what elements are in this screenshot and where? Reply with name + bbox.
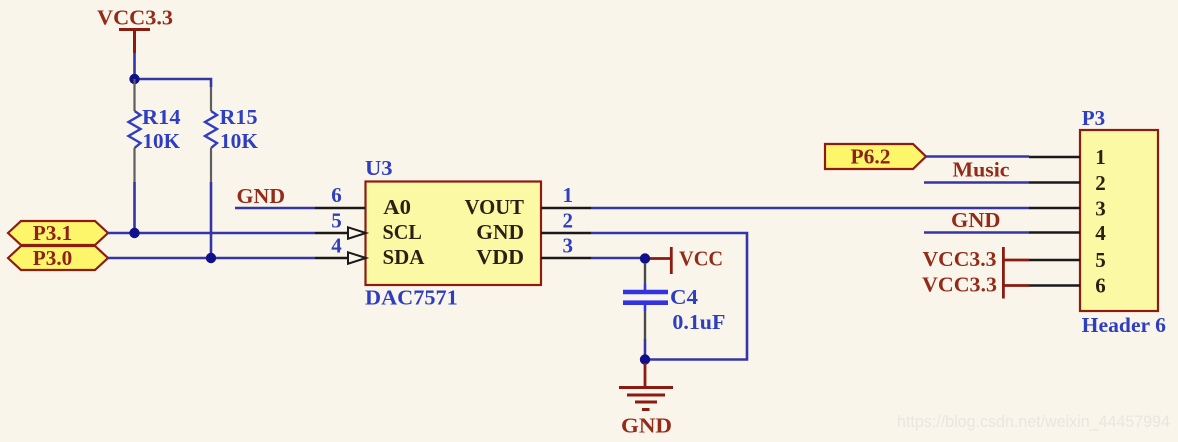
pin name SDA	[383, 245, 426, 269]
pin 6 (A0)	[315, 207, 365, 209]
svg-text:P3.0: P3.0	[33, 246, 73, 270]
connector P3 body	[1080, 130, 1158, 311]
pin 4 (SDA) with input triangle	[315, 252, 366, 263]
power port VCC3.3 (header pin 5)	[923, 247, 1030, 273]
net label GND (A0 pin)	[237, 184, 286, 208]
pin 3 (VDD)	[541, 257, 591, 259]
pin number 4	[331, 234, 342, 258]
junction at VDD node	[640, 253, 650, 263]
svg-text:C4: C4	[670, 285, 699, 309]
svg-text:R14: R14	[142, 105, 181, 129]
pin 2 (GND)	[541, 232, 591, 234]
svg-text:VCC3.3: VCC3.3	[923, 247, 997, 271]
value Header 6	[1082, 313, 1166, 337]
pin name GND	[476, 220, 524, 244]
svg-text:VOUT: VOUT	[465, 195, 524, 219]
svg-text:R15: R15	[220, 105, 258, 129]
svg-text:10K: 10K	[220, 129, 259, 153]
junction at VCC rail	[129, 74, 139, 84]
svg-text:4: 4	[1095, 221, 1106, 245]
label 10K (R14)	[143, 129, 181, 153]
port P3.1	[8, 221, 108, 245]
port P3.0	[8, 246, 108, 270]
header pin number 1	[1095, 145, 1106, 169]
svg-text:GND: GND	[621, 414, 672, 438]
header pin 1	[1029, 156, 1080, 158]
power port VCC3.3 (header pin 6)	[922, 273, 1029, 299]
wire P3.1 to SCL	[108, 232, 315, 235]
svg-text:Header 6: Header 6	[1082, 313, 1166, 337]
svg-text:2: 2	[1095, 171, 1106, 195]
svg-text:2: 2	[562, 209, 573, 233]
svg-text:SCL: SCL	[383, 220, 422, 244]
svg-text:10K: 10K	[143, 129, 181, 153]
label R14	[142, 105, 181, 129]
pin 5 (SCL) with input triangle	[315, 227, 366, 238]
pin number 3	[562, 234, 573, 258]
svg-text:6: 6	[331, 183, 342, 207]
label 0.1uF	[672, 310, 725, 334]
header pin number 4	[1095, 221, 1106, 245]
wire VOUT to header pin 3	[591, 207, 1029, 210]
resistor R14	[129, 79, 141, 233]
junction on P3.0 wire	[206, 253, 216, 263]
wire P3.0 to SDA	[108, 257, 315, 260]
wire VCC3.3 stem to junction	[133, 53, 136, 79]
svg-text:VCC3.3: VCC3.3	[922, 273, 997, 297]
wire Music to header pin 2	[924, 181, 1029, 184]
svg-text:1: 1	[562, 183, 573, 207]
pin name VOUT	[465, 195, 524, 219]
wire P6.2 to header pin 1	[926, 155, 1029, 158]
svg-text:4: 4	[331, 234, 342, 258]
pin number 5	[331, 209, 342, 233]
header pin 3	[1029, 207, 1080, 209]
svg-text:P3.1: P3.1	[33, 221, 73, 245]
svg-text:Music: Music	[953, 158, 1010, 182]
svg-text:3: 3	[1095, 197, 1106, 221]
label C4	[670, 285, 699, 309]
wire GND to A0	[235, 207, 315, 210]
header pin number 6	[1095, 274, 1106, 298]
svg-text:VDD: VDD	[476, 245, 524, 269]
resistor R15	[205, 87, 217, 258]
wire VDD to VCC junction	[591, 257, 645, 260]
pin name A0	[383, 195, 411, 219]
wire GND to header pin 4	[924, 231, 1029, 234]
svg-text:5: 5	[1095, 248, 1106, 272]
svg-text:GND: GND	[237, 184, 286, 208]
svg-text:GND: GND	[476, 220, 524, 244]
svg-text:3: 3	[562, 234, 573, 258]
header pin number 5	[1095, 248, 1106, 272]
ground GND (bottom)	[619, 363, 673, 438]
header pin number 3	[1095, 197, 1106, 221]
designator U3	[365, 156, 393, 180]
wire chip GND loop to cap bottom	[591, 233, 747, 360]
header pin 4	[1029, 231, 1080, 233]
power port VCC3.3 (top left)	[97, 6, 173, 54]
svg-text:SDA: SDA	[383, 245, 426, 269]
header pin 5	[1029, 259, 1080, 261]
header pin 6	[1029, 284, 1080, 286]
svg-text:1: 1	[1095, 145, 1106, 169]
svg-text:https://blog.csdn.net/weixin_4: https://blog.csdn.net/weixin_44457994	[897, 412, 1170, 431]
net label GND (header)	[951, 208, 1001, 232]
capacitor C4	[623, 263, 668, 360]
pin name SCL	[383, 220, 422, 244]
designator P3	[1082, 106, 1105, 130]
port P6.2	[825, 144, 926, 169]
svg-text:6: 6	[1095, 274, 1106, 298]
header pin number 2	[1095, 171, 1106, 195]
power port VCC	[650, 247, 723, 275]
value DAC7571	[365, 286, 458, 310]
svg-text:5: 5	[331, 209, 342, 233]
watermark	[897, 412, 1170, 431]
net label Music	[953, 158, 1010, 182]
svg-text:P3: P3	[1082, 106, 1105, 130]
pin 1 (VOUT)	[541, 207, 591, 209]
junction on P3.1 wire	[129, 228, 139, 238]
header pin 2	[1029, 181, 1080, 183]
label R15	[220, 105, 258, 129]
svg-text:DAC7571: DAC7571	[365, 286, 458, 310]
wire junction to R15 top	[135, 79, 212, 87]
pin number 2	[562, 209, 573, 233]
junction at cap bottom	[640, 354, 650, 364]
svg-text:A0: A0	[383, 195, 411, 219]
pin number 6	[331, 183, 342, 207]
ic U3 body	[366, 182, 542, 286]
pin name VDD	[476, 245, 524, 269]
svg-text:VCC: VCC	[679, 247, 723, 271]
label 10K (R15)	[220, 129, 259, 153]
svg-text:0.1uF: 0.1uF	[672, 310, 725, 334]
svg-text:VCC3.3: VCC3.3	[97, 6, 173, 30]
pin number 1	[562, 183, 573, 207]
svg-text:GND: GND	[951, 208, 1001, 232]
svg-text:U3: U3	[365, 156, 393, 180]
svg-text:P6.2: P6.2	[851, 145, 891, 169]
